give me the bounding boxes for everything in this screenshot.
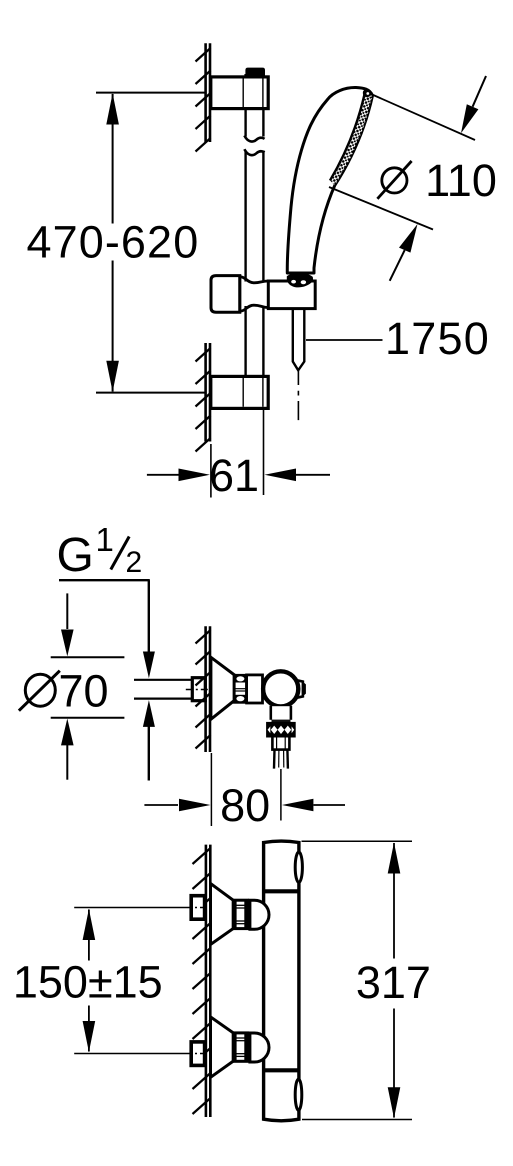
- dimension 61: [147, 410, 330, 498]
- outlet neck (middle): [270, 706, 292, 720]
- hose connector (middle): [272, 736, 289, 749]
- bottom cap joint: [262, 1068, 301, 1072]
- supply pipe (middle): [134, 680, 193, 699]
- dimension Ø70: [51, 593, 125, 779]
- dimension 470-620: [96, 93, 205, 393]
- knurled hose nut (middle): [267, 723, 294, 736]
- svg-text:1750: 1750: [385, 313, 490, 364]
- hot inlet boss: [250, 900, 269, 929]
- top cap joint: [262, 889, 301, 893]
- cold supply socket: [191, 1042, 204, 1066]
- svg-text:150±15: 150±15: [13, 957, 163, 1008]
- cold escutcheon cone: [211, 1017, 234, 1077]
- wall socket (middle): [192, 678, 205, 701]
- leader 1750: [306, 339, 383, 341]
- diameter symbol for 70: [19, 671, 60, 711]
- hand shower connector in holder: [287, 273, 313, 288]
- svg-text:61: 61: [209, 450, 259, 501]
- dimension Ø110: [329, 76, 486, 281]
- text G 1/2: [57, 521, 143, 582]
- lower wall bracket: [211, 376, 268, 408]
- union nut (middle): [234, 675, 247, 702]
- hose centerline: [297, 371, 299, 421]
- cold centerline: [74, 1053, 185, 1055]
- cold union nut: [233, 1033, 248, 1061]
- hand shower: [287, 87, 372, 273]
- hot centerline: [74, 907, 185, 909]
- wall (top, upper bracket): [196, 43, 211, 151]
- slider body over rail: [240, 276, 268, 313]
- svg-text:470-620: 470-620: [26, 217, 199, 268]
- G 1/2 leader line: [59, 580, 155, 780]
- dark ring (middle outlet): [272, 720, 291, 724]
- top knob: [295, 852, 302, 882]
- wall (top, lower bracket): [196, 343, 211, 452]
- bottom knob: [295, 1079, 302, 1110]
- wall (middle): [196, 626, 211, 752]
- svg-text:110: 110: [425, 155, 497, 206]
- svg-text:1: 1: [96, 521, 114, 558]
- union spacer (middle): [247, 675, 263, 703]
- hose stub (middle): [274, 750, 288, 769]
- rail end cap: [245, 68, 265, 76]
- slider cup (hand shower holder): [268, 281, 315, 309]
- svg-text:G: G: [57, 529, 94, 582]
- dimension 150±15: [83, 909, 96, 1052]
- ball right tab: [297, 680, 305, 698]
- dimension 317: [302, 841, 413, 1119]
- svg-text:70: 70: [59, 666, 109, 717]
- hose upper part: [293, 310, 305, 371]
- dimension 80: [144, 753, 345, 826]
- wall (bottom section): [193, 845, 211, 1117]
- svg-text:80: 80: [220, 780, 270, 831]
- diameter symbol for 110: [377, 161, 411, 199]
- svg-text:317: 317: [356, 957, 431, 1008]
- cold inlet boss: [250, 1033, 269, 1062]
- thermostat body: [264, 841, 299, 1121]
- shower rail tube: [244, 74, 264, 378]
- slider holder knob: [211, 276, 240, 313]
- upper wall bracket: [211, 77, 268, 109]
- ball elbow (middle): [263, 671, 298, 706]
- hot escutcheon cone: [211, 884, 234, 945]
- hot union nut: [233, 900, 248, 928]
- hot supply socket: [191, 896, 204, 920]
- socket centerline: [186, 689, 209, 691]
- escutcheon cone (middle): [211, 657, 234, 719]
- svg-text:2: 2: [126, 546, 143, 579]
